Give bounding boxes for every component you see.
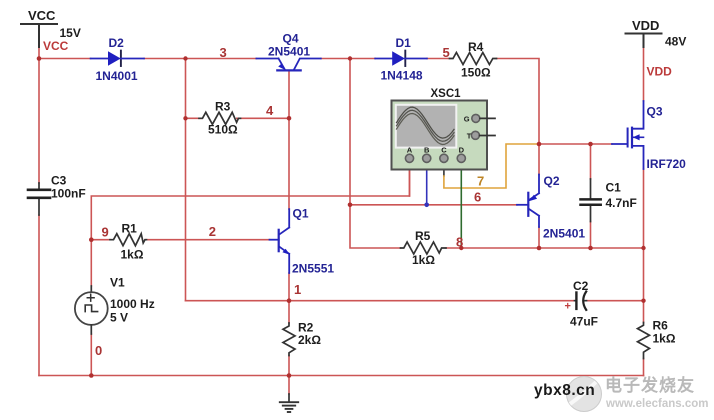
svg-text:1N4148: 1N4148: [381, 69, 423, 83]
svg-text:100nF: 100nF: [51, 186, 86, 200]
wire net 6 line (red) to Q2 base: [350, 204, 517, 206]
wire ground rail net 0 (red) y=375.5: [39, 375, 644, 377]
wire left column lower (red) C3 to rail: [38, 215, 40, 376]
waveform trace 3: [397, 114, 455, 145]
svg-text:VCC: VCC: [28, 8, 56, 23]
ground symbol: [280, 394, 298, 412]
svg-text:6: 6: [474, 190, 481, 205]
wire scope C stub (black): [443, 163, 445, 176]
wire scope D drop net 8 (green): [460, 163, 462, 170]
terminal T pigtail: [480, 135, 495, 137]
wire top segment Q4 to D1 (red): [321, 58, 375, 60]
resistor R1: [110, 234, 147, 246]
junction node8 scope D: [459, 246, 463, 250]
wire gate line net 7 (red): [539, 143, 612, 145]
terminal C knob: [440, 154, 448, 162]
wire segment R4 to corner (red): [497, 59, 540, 145]
svg-text:5: 5: [443, 45, 450, 60]
resistor R4: [450, 53, 497, 65]
svg-text:R6: R6: [653, 319, 669, 333]
terminal B knob: [423, 154, 431, 162]
svg-text:1kΩ: 1kΩ: [121, 248, 144, 262]
svg-text:C: C: [441, 146, 447, 155]
svg-text:VDD: VDD: [647, 65, 673, 79]
svg-text:9: 9: [102, 224, 109, 239]
svg-text:4.7nF: 4.7nF: [606, 196, 637, 210]
wire R2 bottom to rail (red): [288, 356, 290, 376]
svg-text:R3: R3: [215, 100, 231, 114]
junction node1 Q1 emitter: [287, 298, 292, 303]
junction node7 gate corner: [537, 142, 542, 147]
power symbol VDD: [626, 34, 662, 48]
junction node1 right: [641, 299, 645, 303]
junction node8 C1: [588, 246, 593, 251]
junction at x350 top: [348, 56, 352, 60]
wire top net 3 segment VCC to D2 (red): [39, 58, 91, 60]
wire vertical x=350 node6 to node8 corner (red): [350, 205, 401, 248]
wire net 5 segment D1 to R4 (red): [427, 58, 450, 60]
svg-text:C2: C2: [573, 279, 589, 293]
wire C1 bottom (red): [590, 222, 592, 249]
wire Q2 collector top (red) x=539: [538, 144, 540, 175]
wire V1 bottom to rail (red): [90, 334, 92, 376]
power symbol VCC: [21, 24, 57, 47]
svg-text:XSC1: XSC1: [431, 88, 462, 100]
terminal D knob: [457, 154, 465, 162]
junction rail R2: [287, 373, 292, 378]
junction node8 Q2: [537, 246, 542, 251]
svg-text:15V: 15V: [60, 26, 81, 40]
svg-text:1kΩ: 1kΩ: [653, 332, 676, 346]
svg-text:V1: V1: [110, 276, 125, 290]
svg-text:48V: 48V: [665, 35, 686, 49]
wire scope B drop (blue): [426, 163, 428, 205]
svg-text:R5: R5: [415, 229, 431, 243]
svg-text:5 V: 5 V: [110, 311, 128, 325]
svg-text:2kΩ: 2kΩ: [298, 333, 321, 347]
svg-text:D2: D2: [109, 36, 125, 50]
svg-text:510Ω: 510Ω: [208, 123, 238, 137]
svg-text:0: 0: [95, 343, 102, 358]
diode D2: [91, 51, 144, 66]
terminal A knob: [405, 154, 413, 162]
svg-text:7: 7: [477, 174, 484, 189]
transistor Q4 (PNP 2N5401): [256, 59, 320, 71]
junction node4 R3 left: [183, 116, 187, 120]
wire net 4 R3 row (red): [186, 117, 290, 119]
svg-text:D: D: [459, 146, 465, 155]
resistor R3: [199, 112, 241, 124]
svg-text:VDD: VDD: [632, 18, 659, 33]
resistor R6: [638, 323, 650, 359]
wire Q1 emitter to node1 (red): [288, 273, 290, 301]
svg-text:ybx8.cn: ybx8.cn: [534, 382, 595, 399]
wire net 2 R1 to Q1 base (red): [145, 239, 270, 241]
junction node3 at x39: [37, 56, 42, 61]
watermark logo circle: [567, 377, 602, 412]
wire scope A line (red) y=196: [91, 170, 409, 240]
svg-text:A: A: [407, 146, 413, 155]
svg-text:Q3: Q3: [647, 105, 663, 119]
terminal G pigtail: [480, 117, 495, 119]
wire vertical x=185.5 R3 to node1 line (red): [185, 118, 187, 300]
transistor Q1 (NPN 2N5551): [270, 209, 290, 273]
svg-text:Q4: Q4: [283, 32, 299, 46]
oscilloscope screen: [396, 105, 457, 148]
svg-text:2: 2: [209, 224, 216, 239]
junction node8 right: [641, 246, 645, 250]
transistor Q2 (PNP 2N5401): [517, 175, 539, 228]
waveform trace 1: [397, 107, 455, 138]
oscilloscope XSC1 body: [392, 101, 488, 170]
junction C1 top: [588, 142, 593, 147]
capacitor C2 (polarized): [575, 292, 587, 310]
svg-text:Q1: Q1: [293, 207, 309, 221]
svg-text:4: 4: [266, 103, 274, 118]
svg-text:T: T: [467, 131, 472, 140]
svg-text:1kΩ: 1kΩ: [412, 253, 435, 267]
svg-text:www.elecfans.com: www.elecfans.com: [605, 398, 708, 410]
wire VDD drop (red) x=643.5: [643, 47, 645, 101]
svg-text:VCC: VCC: [43, 39, 69, 53]
junction node6 left: [348, 203, 353, 208]
svg-text:2N5401: 2N5401: [543, 227, 585, 241]
svg-text:G: G: [464, 115, 470, 124]
wire net 9 to R1 (red): [91, 239, 110, 241]
wire scope A stub (red): [409, 163, 411, 196]
wire Q1 collector column (red) x=289: [288, 118, 290, 209]
svg-text:1: 1: [294, 282, 301, 297]
svg-text:IRF720: IRF720: [647, 157, 687, 171]
svg-text:8: 8: [456, 235, 463, 250]
wire scope C net 7 (orange): [444, 144, 539, 188]
svg-text:47uF: 47uF: [570, 315, 598, 329]
wire Q3 source column (red): [643, 169, 645, 323]
svg-text:3: 3: [220, 45, 227, 60]
terminal T knob: [471, 131, 479, 139]
capacitor C1: [581, 179, 601, 222]
wire Q4 base drop (red) x=289: [288, 71, 290, 119]
waveform trace 2: [397, 110, 455, 141]
svg-text:B: B: [424, 146, 430, 155]
wire Q2 emitter bottom (red): [538, 227, 540, 248]
svg-text:+: +: [565, 301, 571, 313]
svg-text:2N5401: 2N5401: [268, 45, 310, 59]
junction rail V1: [89, 373, 94, 378]
wire top net 3 segment D2 to Q4 (red): [144, 58, 256, 60]
wire VCC drop (red) x=39: [38, 47, 40, 59]
svg-text:1000 Hz: 1000 Hz: [110, 297, 155, 311]
diode D1: [375, 51, 427, 66]
resistor R5: [401, 242, 447, 254]
capacitor C3: [28, 183, 50, 215]
terminal G knob: [472, 114, 480, 122]
junction node9: [89, 237, 94, 242]
junction node4 Q4 base: [287, 116, 292, 121]
svg-text:Q2: Q2: [544, 174, 560, 188]
junction node3 at x185.5: [183, 56, 187, 60]
svg-text:R4: R4: [468, 40, 484, 54]
svg-text:R1: R1: [122, 222, 138, 236]
wire R6 bottom to rail (red): [643, 359, 645, 376]
wire ground stub below rail (red): [288, 376, 290, 395]
svg-text:1N4001: 1N4001: [96, 69, 138, 83]
wire node 1 line C2 to right column (red): [587, 300, 644, 302]
wire node 1 line (red) y=300.7: [186, 300, 575, 302]
svg-text:2N5551: 2N5551: [292, 262, 334, 276]
wire net 9 down to V1 (red): [90, 240, 92, 286]
wire C1 top (red): [590, 144, 592, 179]
source V1 (square wave): [75, 286, 108, 334]
svg-text:D1: D1: [396, 36, 412, 50]
svg-text:C1: C1: [606, 181, 622, 195]
svg-text:150Ω: 150Ω: [461, 66, 491, 80]
wire vertical x=350 top to node6 (red): [349, 59, 351, 205]
svg-text:电子发烧友: 电子发烧友: [605, 375, 695, 395]
wire vertical R3 branch x=185.5 (red): [185, 59, 187, 119]
transistor Q3 (NMOS IRF720): [612, 101, 644, 169]
wire net 8 line R5 to right column (red): [446, 247, 643, 249]
junction node6 scope B (blue): [424, 203, 429, 208]
wire left column upper (red) VCC to C3: [38, 59, 40, 184]
resistor R2: [283, 323, 295, 356]
wire R2 top (red): [288, 301, 290, 323]
